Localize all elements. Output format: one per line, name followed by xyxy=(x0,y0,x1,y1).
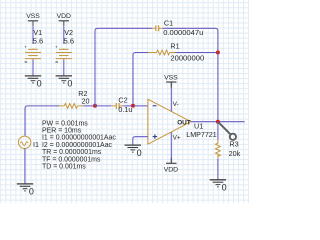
svg-text:C1: C1 xyxy=(164,19,173,28)
op-amp V- power pin wire xyxy=(170,82,172,111)
svg-text:V-: V- xyxy=(173,101,179,108)
svg-text:VSS: VSS xyxy=(26,13,40,20)
resistor R1 xyxy=(148,50,176,55)
svg-text:PER = 10ms: PER = 10ms xyxy=(42,128,82,135)
wire: node B up to R1 row xyxy=(133,53,148,106)
svg-text:0: 0 xyxy=(222,183,227,193)
svg-text:TF = 0.0000001ms: TF = 0.0000001ms xyxy=(42,156,101,163)
svg-text:VSS: VSS xyxy=(164,74,178,81)
svg-text:TR = 0.0000001ms: TR = 0.0000001ms xyxy=(42,149,102,156)
wire: non-inverting input to ground xyxy=(133,137,148,145)
wire: node B to op-amp inverting input xyxy=(133,105,148,107)
wire: node A up to C1 row xyxy=(95,28,152,106)
ground (V2), net 0 xyxy=(56,76,72,83)
wire: VDD bar to V2 battery xyxy=(63,26,65,44)
svg-text:5.6: 5.6 xyxy=(64,37,74,46)
node B junction xyxy=(131,104,135,108)
ground (R3), net 0 xyxy=(210,180,226,187)
wire: I1 bottom to ground xyxy=(24,149,26,184)
svg-text:I2 = 0.0000000001Aac: I2 = 0.0000000001Aac xyxy=(42,142,113,149)
wire: R1 to feedback vertical xyxy=(176,52,218,54)
svg-text:TD = 0.001ms: TD = 0.001ms xyxy=(42,164,86,171)
wire: node A to C2 xyxy=(95,105,111,107)
svg-text:20: 20 xyxy=(82,96,90,105)
svg-text:20k: 20k xyxy=(229,149,241,158)
svg-text:0: 0 xyxy=(37,79,42,89)
voltage source V1 xyxy=(25,49,41,60)
I1 parameter text block xyxy=(42,120,116,170)
wire: I1 to R2 (left input wire with corner) xyxy=(25,106,59,136)
wire: VSS bar to V1 battery xyxy=(32,26,34,44)
svg-text:+: + xyxy=(24,44,27,49)
background grid xyxy=(0,0,249,203)
voltage probe marker xyxy=(219,122,236,139)
ground (V1), net 0 xyxy=(25,76,41,83)
svg-text:0.0000047u: 0.0000047u xyxy=(163,28,203,37)
svg-text:0: 0 xyxy=(137,148,142,158)
power symbol VDD (op-amp, flipped) xyxy=(166,158,176,164)
plus input mark xyxy=(153,134,157,138)
resistor R3 xyxy=(216,140,221,159)
svg-text:VDD: VDD xyxy=(164,167,178,174)
voltage source V2 xyxy=(56,49,72,60)
ground (op-amp + input), net 0 xyxy=(125,145,141,152)
svg-text:VDD: VDD xyxy=(57,13,71,20)
wire: V1 bottom to ground xyxy=(32,60,34,76)
svg-text:I1: I1 xyxy=(33,140,39,149)
wire: C1 to feedback vertical xyxy=(163,28,218,52)
svg-text:V+: V+ xyxy=(173,135,181,142)
wire: C2 to node B xyxy=(123,105,133,107)
wire: output node down to R3 xyxy=(217,122,219,140)
svg-text:OUT: OUT xyxy=(177,120,191,127)
wire: op-amp output to right stub xyxy=(191,121,245,123)
wire: R3 to ground xyxy=(217,159,219,180)
op-amp V+ power pin wire xyxy=(170,132,172,163)
node A junction xyxy=(93,104,97,108)
junction at R1 / feedback vertical xyxy=(216,51,220,55)
capacitor C2 xyxy=(111,103,123,109)
output node junction xyxy=(216,120,220,124)
svg-text:LMP7721: LMP7721 xyxy=(186,131,216,139)
svg-text:20000000: 20000000 xyxy=(170,54,204,63)
ground (I1), net 0 xyxy=(17,184,33,191)
wire: V2 bottom to ground xyxy=(63,60,65,76)
svg-text:+: + xyxy=(55,44,58,49)
svg-text:I1 = 0.00000000001Aac: I1 = 0.00000000001Aac xyxy=(42,135,116,142)
resistor R2 xyxy=(59,104,83,109)
svg-text:0: 0 xyxy=(29,186,34,196)
svg-text:R1: R1 xyxy=(170,42,179,51)
minus input mark xyxy=(153,105,157,107)
svg-text:U1: U1 xyxy=(194,121,203,130)
svg-text:PW = 0.001ms: PW = 0.001ms xyxy=(42,120,88,127)
svg-text:0: 0 xyxy=(67,79,72,89)
capacitor C1 xyxy=(152,25,163,31)
wire: feedback vertical down to output node xyxy=(217,53,219,122)
svg-text:5.6: 5.6 xyxy=(33,37,43,46)
op-amp U1 triangle xyxy=(148,99,191,144)
svg-text:R3: R3 xyxy=(229,140,238,149)
svg-text:C2: C2 xyxy=(118,95,127,104)
current source I1 xyxy=(18,136,30,148)
wire: R2 to node A xyxy=(83,105,95,107)
